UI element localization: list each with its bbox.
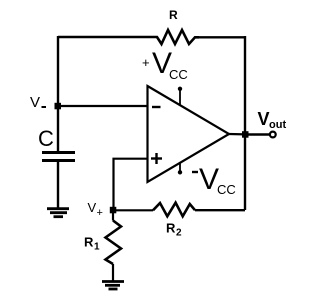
op-amp plus input mark	[151, 153, 162, 164]
label -VCC	[192, 171, 198, 173]
wire left vertical	[57, 36, 59, 106]
wire R1 to ground	[112, 264, 114, 281]
wire V- node down to capacitor	[57, 106, 59, 152]
wire V- to op-amp inverting input	[58, 105, 148, 107]
wire plus input to V+ node	[114, 159, 148, 210]
wire V+ node to R2	[113, 209, 153, 211]
resistor R2	[153, 203, 195, 217]
power pin -VCC	[179, 162, 181, 171]
svg-text:V: V	[88, 200, 97, 215]
svg-text:R: R	[84, 235, 94, 250]
wire top-left horizontal	[58, 36, 153, 38]
ground (R1)	[102, 282, 124, 290]
svg-text:V: V	[30, 94, 40, 111]
node V+	[110, 207, 117, 214]
terminal Vout	[270, 132, 276, 138]
resistor R	[153, 30, 199, 44]
op-amp U1	[148, 86, 230, 182]
svg-text:R: R	[169, 8, 178, 22]
node output junction	[242, 131, 249, 138]
wire right vertical	[244, 36, 246, 210]
svg-text:2: 2	[176, 228, 182, 239]
svg-text:R: R	[166, 221, 176, 236]
svg-text:CC: CC	[217, 182, 236, 197]
wire junction to output terminal	[245, 133, 270, 136]
wire R2 to right vertical	[195, 209, 245, 211]
wire op-amp output to junction	[229, 133, 245, 136]
wire V+ node down to R1	[112, 210, 114, 221]
svg-text:1: 1	[94, 242, 100, 253]
svg-text:+: +	[142, 55, 150, 70]
svg-text:V: V	[199, 163, 219, 196]
svg-text:V: V	[258, 109, 270, 129]
ground (capacitor)	[47, 209, 69, 217]
power pin +VCC	[179, 90, 181, 105]
op-amp minus input mark	[152, 106, 161, 108]
resistor R1	[106, 221, 122, 265]
wire capacitor to ground	[57, 162, 59, 208]
svg-text:C: C	[38, 126, 54, 151]
svg-text:CC: CC	[169, 67, 188, 82]
svg-text:+: +	[97, 207, 103, 219]
capacitor C	[42, 151, 75, 154]
wire top-right horizontal	[199, 36, 245, 38]
node V-	[55, 103, 62, 110]
svg-text:out: out	[269, 119, 286, 131]
